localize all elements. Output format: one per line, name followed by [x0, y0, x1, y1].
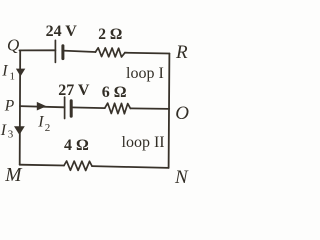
svg-text:3: 3 — [8, 129, 14, 141]
wire right R-N — [168, 54, 171, 168]
svg-text:I: I — [0, 122, 7, 139]
wire battery-resistor top — [63, 51, 96, 52]
arrow I3 down — [14, 126, 25, 135]
svg-text:I: I — [1, 62, 8, 79]
svg-text:Q: Q — [7, 36, 19, 55]
svg-text:R: R — [175, 42, 188, 63]
svg-text:1: 1 — [10, 71, 16, 83]
svg-text:2: 2 — [45, 122, 51, 134]
svg-text:2 Ω: 2 Ω — [98, 26, 122, 43]
svg-text:loop I: loop I — [126, 65, 164, 82]
battery 27V long plate — [64, 97, 66, 118]
resistor 4ohm zigzag — [64, 161, 92, 171]
resistor 6ohm zigzag — [105, 103, 131, 114]
svg-text:loop II: loop II — [122, 134, 165, 151]
svg-text:P: P — [4, 98, 15, 115]
svg-text:M: M — [4, 165, 23, 186]
wire top Q-battery — [20, 49, 56, 51]
wire middle P-battery — [20, 106, 65, 107]
svg-text:27 V: 27 V — [58, 82, 90, 99]
wire left Q-M — [19, 50, 22, 164]
arrow I2 right — [37, 102, 47, 111]
battery 24V long plate — [54, 40, 56, 62]
wire resistor-R corner — [125, 52, 169, 55]
battery 24V short plate — [61, 46, 64, 59]
arrow I1 down — [16, 69, 25, 77]
wire bottom M-resistor — [20, 164, 64, 167]
svg-text:O: O — [175, 103, 189, 124]
svg-text:6 Ω: 6 Ω — [102, 84, 127, 101]
svg-text:I: I — [37, 113, 44, 130]
resistor R 2ohm zigzag — [95, 48, 125, 57]
svg-text:24 V: 24 V — [46, 23, 78, 40]
svg-text:4 Ω: 4 Ω — [64, 137, 89, 154]
svg-text:N: N — [174, 167, 189, 188]
battery 27V short plate — [70, 101, 73, 117]
wire battery-resistor middle — [71, 106, 105, 109]
wire resistor-N — [92, 166, 169, 168]
wire resistor-O — [130, 107, 169, 110]
